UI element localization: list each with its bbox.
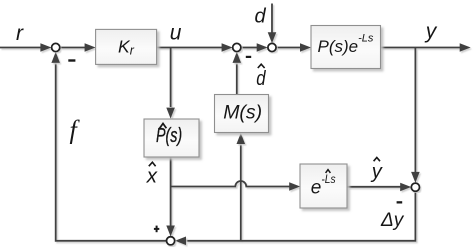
arrowhead up into M bbox=[237, 133, 246, 144]
wire xhat to delay with hop bbox=[171, 181, 295, 187]
wire y branch down to J2 bbox=[414, 48, 416, 173]
wire M output up to S2 bbox=[236, 64, 238, 95]
svg-text:y: y bbox=[424, 20, 438, 43]
arrowhead into Phat bbox=[166, 108, 175, 119]
sign minus at J2 bbox=[397, 201, 403, 203]
svg-text:d: d bbox=[255, 5, 267, 27]
label yhat bbox=[370, 158, 383, 183]
wire M input from bottom bus bbox=[240, 145, 242, 241]
block plant P(s)e^-Ls bbox=[311, 26, 381, 69]
arrowhead into Sd bbox=[257, 43, 268, 52]
summing junction J2 bbox=[411, 183, 419, 191]
wire r input bbox=[0, 47, 41, 49]
label dhat bbox=[256, 64, 266, 90]
arrowhead y into J2 bbox=[411, 172, 420, 183]
svg-text:Δy: Δy bbox=[380, 210, 405, 231]
arrowhead bus into S3 bbox=[175, 237, 186, 246]
arrowhead into S1 bbox=[40, 43, 51, 52]
block Phat(s) bbox=[144, 119, 199, 157]
arrowhead output y bbox=[460, 43, 471, 52]
arrowhead dhat up into S2 bbox=[233, 52, 242, 63]
arrowhead into plant bbox=[300, 43, 311, 52]
summing junction S1 bbox=[52, 43, 60, 51]
svg-text:r: r bbox=[16, 22, 24, 45]
wire S2 to Sd bbox=[241, 47, 257, 49]
svg-text:y: y bbox=[370, 161, 383, 183]
label xhat bbox=[146, 162, 158, 187]
sign minus at S1 bbox=[68, 59, 75, 61]
block Kr bbox=[96, 29, 157, 64]
sign plus at S3 bbox=[154, 228, 159, 230]
svg-text:x: x bbox=[146, 164, 158, 187]
summing junction S3 bbox=[167, 237, 175, 245]
svg-text:f: f bbox=[70, 116, 81, 145]
svg-text:u: u bbox=[170, 22, 182, 45]
svg-text:M(s): M(s) bbox=[223, 102, 262, 124]
block delay e^-Lhat s bbox=[300, 164, 347, 208]
wire xhat down to S3 bbox=[170, 157, 172, 226]
summing junction S2 bbox=[233, 43, 241, 51]
arrowhead into Kr bbox=[85, 43, 96, 52]
summing junction Sd bbox=[268, 43, 276, 51]
arrowhead xhat into S3 bbox=[166, 226, 175, 237]
wire S3 left and up to S1 bbox=[56, 64, 167, 241]
sign minus at S2 bbox=[246, 56, 251, 58]
arrowhead into S2 bbox=[222, 43, 233, 52]
block M(s) bbox=[215, 95, 269, 133]
svg-text:d: d bbox=[256, 68, 266, 90]
arrowhead f up into S1 bbox=[51, 52, 60, 63]
wire J2 down and left to S3 bbox=[186, 191, 415, 240]
wire delay output yhat to J2 bbox=[347, 186, 400, 188]
arrowhead of d into Sd bbox=[268, 32, 277, 43]
wire u branch down to Phat bbox=[170, 48, 172, 108]
wire Kr to S2 bbox=[157, 47, 222, 49]
wire plant output y bbox=[381, 47, 461, 49]
wire d input bbox=[271, 4, 273, 33]
arrowhead into delay block bbox=[289, 182, 300, 191]
wire S1 to Kr bbox=[60, 47, 85, 49]
arrowhead yhat into J2 bbox=[400, 183, 411, 192]
wire Sd to plant bbox=[276, 47, 305, 49]
